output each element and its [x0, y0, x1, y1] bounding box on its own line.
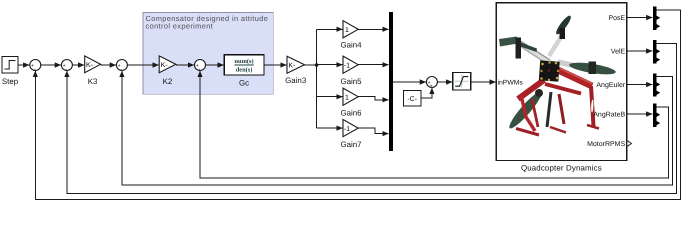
- wire S2 to gain K3: [72, 64, 84, 66]
- transfer function Gc: [224, 55, 264, 88]
- svg-text:control experiment: control experiment: [146, 21, 214, 30]
- wire branch to Gain5: [317, 64, 343, 66]
- quadcopter image: [499, 14, 616, 135]
- wire Gain7 to mux: [358, 128, 388, 134]
- svg-text:K-: K-: [86, 62, 94, 69]
- wire K2 to sum S4: [176, 64, 194, 66]
- svg-text:num(s): num(s): [235, 58, 254, 65]
- wire -C- to sum S5: [421, 88, 432, 98]
- sum S5: [426, 77, 437, 90]
- wire branch to Gain6: [317, 96, 343, 98]
- wire feedback D4 to sum S4: [200, 71, 669, 178]
- gain K3: [85, 56, 101, 86]
- svg-text:Gain3: Gain3: [285, 76, 307, 85]
- svg-text:inPWMs: inPWMs: [498, 79, 524, 86]
- svg-text:Gain5: Gain5: [340, 77, 362, 86]
- wire S1 to sum S2: [41, 64, 61, 66]
- port label inPWMs: [498, 79, 524, 86]
- wire feedback D2 to sum S2: [67, 44, 677, 194]
- port label VelE: [611, 47, 626, 55]
- svg-text:Gain6: Gain6: [340, 108, 362, 117]
- demux D4: [653, 104, 660, 127]
- svg-text:AngEuler: AngEuler: [596, 81, 625, 89]
- demux D3: [653, 73, 660, 96]
- svg-text:Quadcopter Dynamics: Quadcopter Dynamics: [521, 163, 602, 172]
- sum S4: [195, 60, 206, 73]
- svg-text:Gain7: Gain7: [340, 140, 361, 149]
- port label MotorRPMS: [587, 140, 631, 148]
- step source Step: [2, 56, 19, 86]
- wire Step to sum S1: [18, 64, 29, 66]
- wire branch to Gain7: [317, 127, 343, 129]
- wire branch to Gain4: [317, 28, 343, 30]
- mux Mux: [389, 12, 393, 151]
- saturation block: [453, 73, 471, 90]
- svg-text:PosE: PosE: [608, 15, 625, 22]
- wire saturation to Quadcopter Dynamics: [471, 81, 496, 83]
- wire S4 to transfer function Gc: [206, 64, 224, 66]
- wire branch vertical: [316, 29, 318, 128]
- svg-text:Step: Step: [2, 77, 19, 86]
- wire AngRateB to demux D4: [627, 113, 653, 115]
- sum S3: [116, 60, 127, 73]
- svg-text:-1: -1: [344, 126, 350, 133]
- svg-text:1: 1: [345, 94, 349, 101]
- svg-text:AngRateB: AngRateB: [593, 111, 625, 118]
- svg-text:MotorRPMS: MotorRPMS: [587, 141, 625, 148]
- wire K3 to sum S3: [101, 64, 116, 66]
- wire PosE to demux D1: [627, 17, 653, 19]
- gain Gain5: [340, 56, 362, 86]
- gain K2: [159, 56, 176, 86]
- svg-text:-1: -1: [344, 62, 350, 69]
- port label AngRateB: [593, 111, 625, 118]
- port label AngEuler: [596, 81, 625, 89]
- demux D2: [653, 40, 660, 63]
- sum S1: [30, 60, 41, 73]
- gain Gain7: [340, 120, 361, 150]
- wire AngEuler to demux D3: [627, 84, 653, 86]
- gain Gain4: [340, 21, 362, 50]
- wire S5 to saturation: [437, 81, 452, 83]
- wire Gain3 to branch node: [305, 64, 317, 66]
- gain Gain3: [285, 56, 307, 85]
- svg-text:1: 1: [345, 27, 349, 34]
- wire mux to sum S5: [393, 81, 426, 83]
- svg-text:VelE: VelE: [611, 47, 626, 55]
- wire VelE to demux D2: [627, 50, 653, 52]
- wire Gain6 to mux: [358, 97, 388, 100]
- node branch junction: [315, 63, 319, 67]
- svg-text:Gain4: Gain4: [340, 41, 362, 50]
- wire feedback D3 to sum S3: [122, 71, 673, 185]
- svg-text:K-: K-: [288, 63, 296, 70]
- svg-text:Gc: Gc: [239, 79, 249, 88]
- svg-text:K3: K3: [88, 77, 98, 86]
- svg-text:den(s): den(s): [236, 67, 253, 74]
- wire Gain5 to mux: [358, 64, 388, 66]
- demux D1: [653, 7, 660, 30]
- wire S3 to gain K2: [127, 64, 158, 66]
- constant -C-: [404, 91, 422, 107]
- svg-text:K2: K2: [163, 77, 173, 86]
- area annotation: compensator box: [143, 13, 273, 95]
- port label PosE: [608, 15, 625, 22]
- subsystem Quadcopter Dynamics: [496, 3, 627, 173]
- wire Gc to gain Gain3: [264, 64, 287, 66]
- svg-text:-C-: -C-: [407, 96, 417, 103]
- wire feedback D1 to sum S1: [35, 10, 680, 199]
- gain Gain6: [340, 88, 362, 117]
- svg-text:+: +: [430, 83, 433, 89]
- wire Gain4 to mux: [358, 28, 388, 30]
- svg-text:K-: K-: [161, 62, 169, 69]
- sum S2: [61, 60, 72, 73]
